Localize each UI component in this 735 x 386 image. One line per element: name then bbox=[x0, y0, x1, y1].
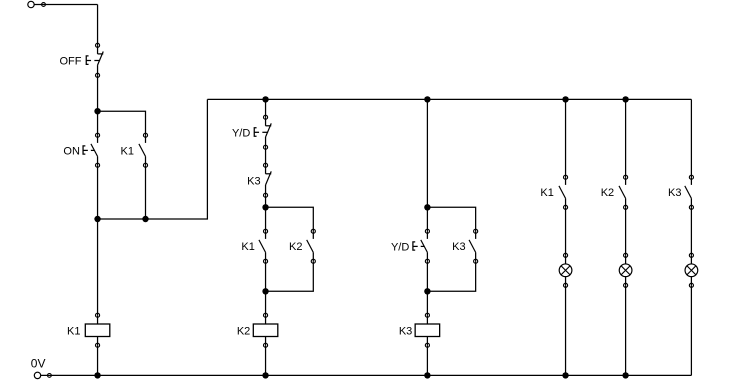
svg-text:K1: K1 bbox=[241, 241, 254, 253]
wire coil K3 to bottom bus bbox=[426, 345, 428, 375]
wire node D to coil K2 bbox=[265, 291, 267, 315]
label K3 (coil) bbox=[399, 326, 412, 338]
wire node C to K1 contact bbox=[265, 207, 267, 231]
contact K2 lamp branch (NO) bbox=[619, 175, 628, 209]
wire bottom bus 0V bbox=[41, 374, 692, 376]
wire ON to node B bbox=[97, 165, 99, 219]
junction node F bbox=[424, 288, 430, 294]
svg-text:Y/D: Y/D bbox=[232, 128, 250, 140]
wire K1 contact to lamp H1 bbox=[565, 207, 567, 255]
wire K3 to node C bbox=[265, 195, 267, 207]
junction lamp 2 / bottom bus bbox=[622, 372, 628, 378]
junction node D bbox=[262, 288, 268, 294]
wire lamp H2 to bottom bus bbox=[625, 285, 627, 375]
svg-text:ON: ON bbox=[63, 146, 80, 158]
wire lamp H3 to bottom bus corner bbox=[690, 285, 692, 375]
label K2 (lamp contact) bbox=[601, 187, 614, 199]
contact K3 lamp branch (NO) bbox=[685, 175, 694, 209]
contact K1 lamp branch (NO) bbox=[559, 175, 568, 209]
junction coil K1 / bottom bus bbox=[94, 372, 100, 378]
label Y/D bbox=[232, 128, 250, 140]
wire Y/D to K3 contact bbox=[265, 147, 267, 165]
svg-text:K1: K1 bbox=[67, 326, 80, 338]
contact K3 (NO) bbox=[469, 229, 478, 263]
wire node A to K1 aux branch bbox=[98, 111, 146, 135]
wire node E to K3 branch bbox=[427, 207, 475, 231]
junction top bus / K3 chain bbox=[424, 96, 430, 102]
pushbutton Y/D (NC) bbox=[254, 115, 271, 149]
svg-text:K3: K3 bbox=[399, 326, 412, 338]
label K1 (NO contact) bbox=[241, 241, 254, 253]
pushbutton ON (NO) bbox=[83, 133, 100, 167]
contact K1 (NO) bbox=[259, 229, 268, 263]
wire OFF to node A bbox=[97, 75, 99, 111]
label ON bbox=[63, 146, 80, 158]
junction node B2 bbox=[142, 216, 148, 222]
label K2 (coil) bbox=[237, 326, 250, 338]
terminal L1 (supply) bbox=[28, 1, 46, 7]
wire node B to coil K1 bbox=[97, 219, 99, 315]
contact K1 aux (NO) bbox=[139, 133, 148, 167]
junction node C bbox=[262, 204, 268, 210]
pushbutton OFF (NC) bbox=[86, 43, 103, 77]
lamp H2 bbox=[619, 253, 632, 287]
label Y/D (NO button) bbox=[391, 241, 409, 253]
wire K2 contact to lamp H2 bbox=[625, 207, 627, 255]
wire bus to node E bbox=[426, 99, 428, 207]
wire node C to K2 branch bbox=[266, 207, 314, 231]
svg-text:OFF: OFF bbox=[60, 56, 82, 68]
wire node A to ON button bbox=[97, 111, 99, 135]
wire lamp H1 to bottom bus bbox=[565, 285, 567, 375]
svg-text:K3: K3 bbox=[247, 175, 260, 187]
contact K2 (NO) bbox=[307, 229, 316, 263]
lamp H3 bbox=[685, 253, 698, 287]
label K1 (coil) bbox=[67, 326, 80, 338]
svg-text:K3: K3 bbox=[668, 187, 681, 199]
wire node F to coil K3 bbox=[426, 291, 428, 315]
junction node B bbox=[94, 216, 100, 222]
svg-text:K2: K2 bbox=[601, 187, 614, 199]
wire bus corner down to K3 lamp contact bbox=[690, 99, 692, 177]
svg-text:K2: K2 bbox=[237, 326, 250, 338]
wire K1 aux to node B bbox=[145, 165, 147, 219]
wire node B to K1 aux branch bbox=[98, 218, 146, 220]
svg-text:0V: 0V bbox=[31, 356, 46, 370]
svg-text:K2: K2 bbox=[289, 241, 302, 253]
label K3 (lamp contact) bbox=[668, 187, 681, 199]
label K3 (NC contact) bbox=[247, 175, 260, 187]
lamp H1 bbox=[559, 253, 572, 287]
junction top bus / K2 chain bbox=[262, 96, 268, 102]
label K2 (NO contact) bbox=[289, 241, 302, 253]
label OFF bbox=[60, 56, 82, 68]
coil K3 bbox=[415, 313, 440, 347]
wire node E to Y/D button bbox=[426, 207, 428, 231]
svg-text:K3: K3 bbox=[452, 241, 465, 253]
junction top bus / lamp 2 bbox=[622, 96, 628, 102]
label K3 (NO contact) bbox=[452, 241, 465, 253]
junction lamp 1 / bottom bus bbox=[562, 372, 568, 378]
coil K1 bbox=[85, 313, 110, 347]
wire bus to K2 lamp contact bbox=[625, 99, 627, 177]
wire top bus bbox=[207, 98, 691, 100]
wire K3 contact to lamp H3 bbox=[690, 207, 692, 255]
contact K3 (NC) bbox=[264, 163, 272, 197]
svg-text:Y/D: Y/D bbox=[391, 241, 409, 253]
svg-text:K1: K1 bbox=[540, 187, 553, 199]
wire down to OFF button bbox=[97, 5, 99, 46]
wire L1 to corner bbox=[34, 4, 97, 6]
junction node E bbox=[424, 204, 430, 210]
coil K2 bbox=[253, 313, 277, 347]
wire K1 to node D bbox=[265, 261, 267, 291]
wire node B riser to top bus bbox=[146, 99, 208, 219]
junction coil K2 / bottom bus bbox=[262, 372, 268, 378]
label K1 (lamp contact) bbox=[540, 187, 553, 199]
wire bus to K1 lamp contact bbox=[565, 99, 567, 177]
junction coil K3 / bottom bus bbox=[424, 372, 430, 378]
label 0V bbox=[31, 356, 46, 370]
label K1 (aux contact) bbox=[121, 146, 134, 158]
pushbutton Y/D (NO) bbox=[413, 229, 430, 263]
wire coil K1 to bottom bus bbox=[97, 345, 99, 375]
junction top bus / lamp 1 bbox=[562, 96, 568, 102]
wire coil K2 to bottom bus bbox=[265, 345, 267, 375]
terminal 0V bbox=[34, 372, 51, 378]
wire bus to Y/D button bbox=[265, 99, 267, 117]
svg-text:K1: K1 bbox=[121, 146, 134, 158]
wire K3 back to node F bbox=[427, 261, 475, 291]
junction node A bbox=[94, 108, 100, 114]
wire K2 back to node D bbox=[266, 261, 314, 291]
wire Y/D to node F bbox=[426, 261, 428, 291]
